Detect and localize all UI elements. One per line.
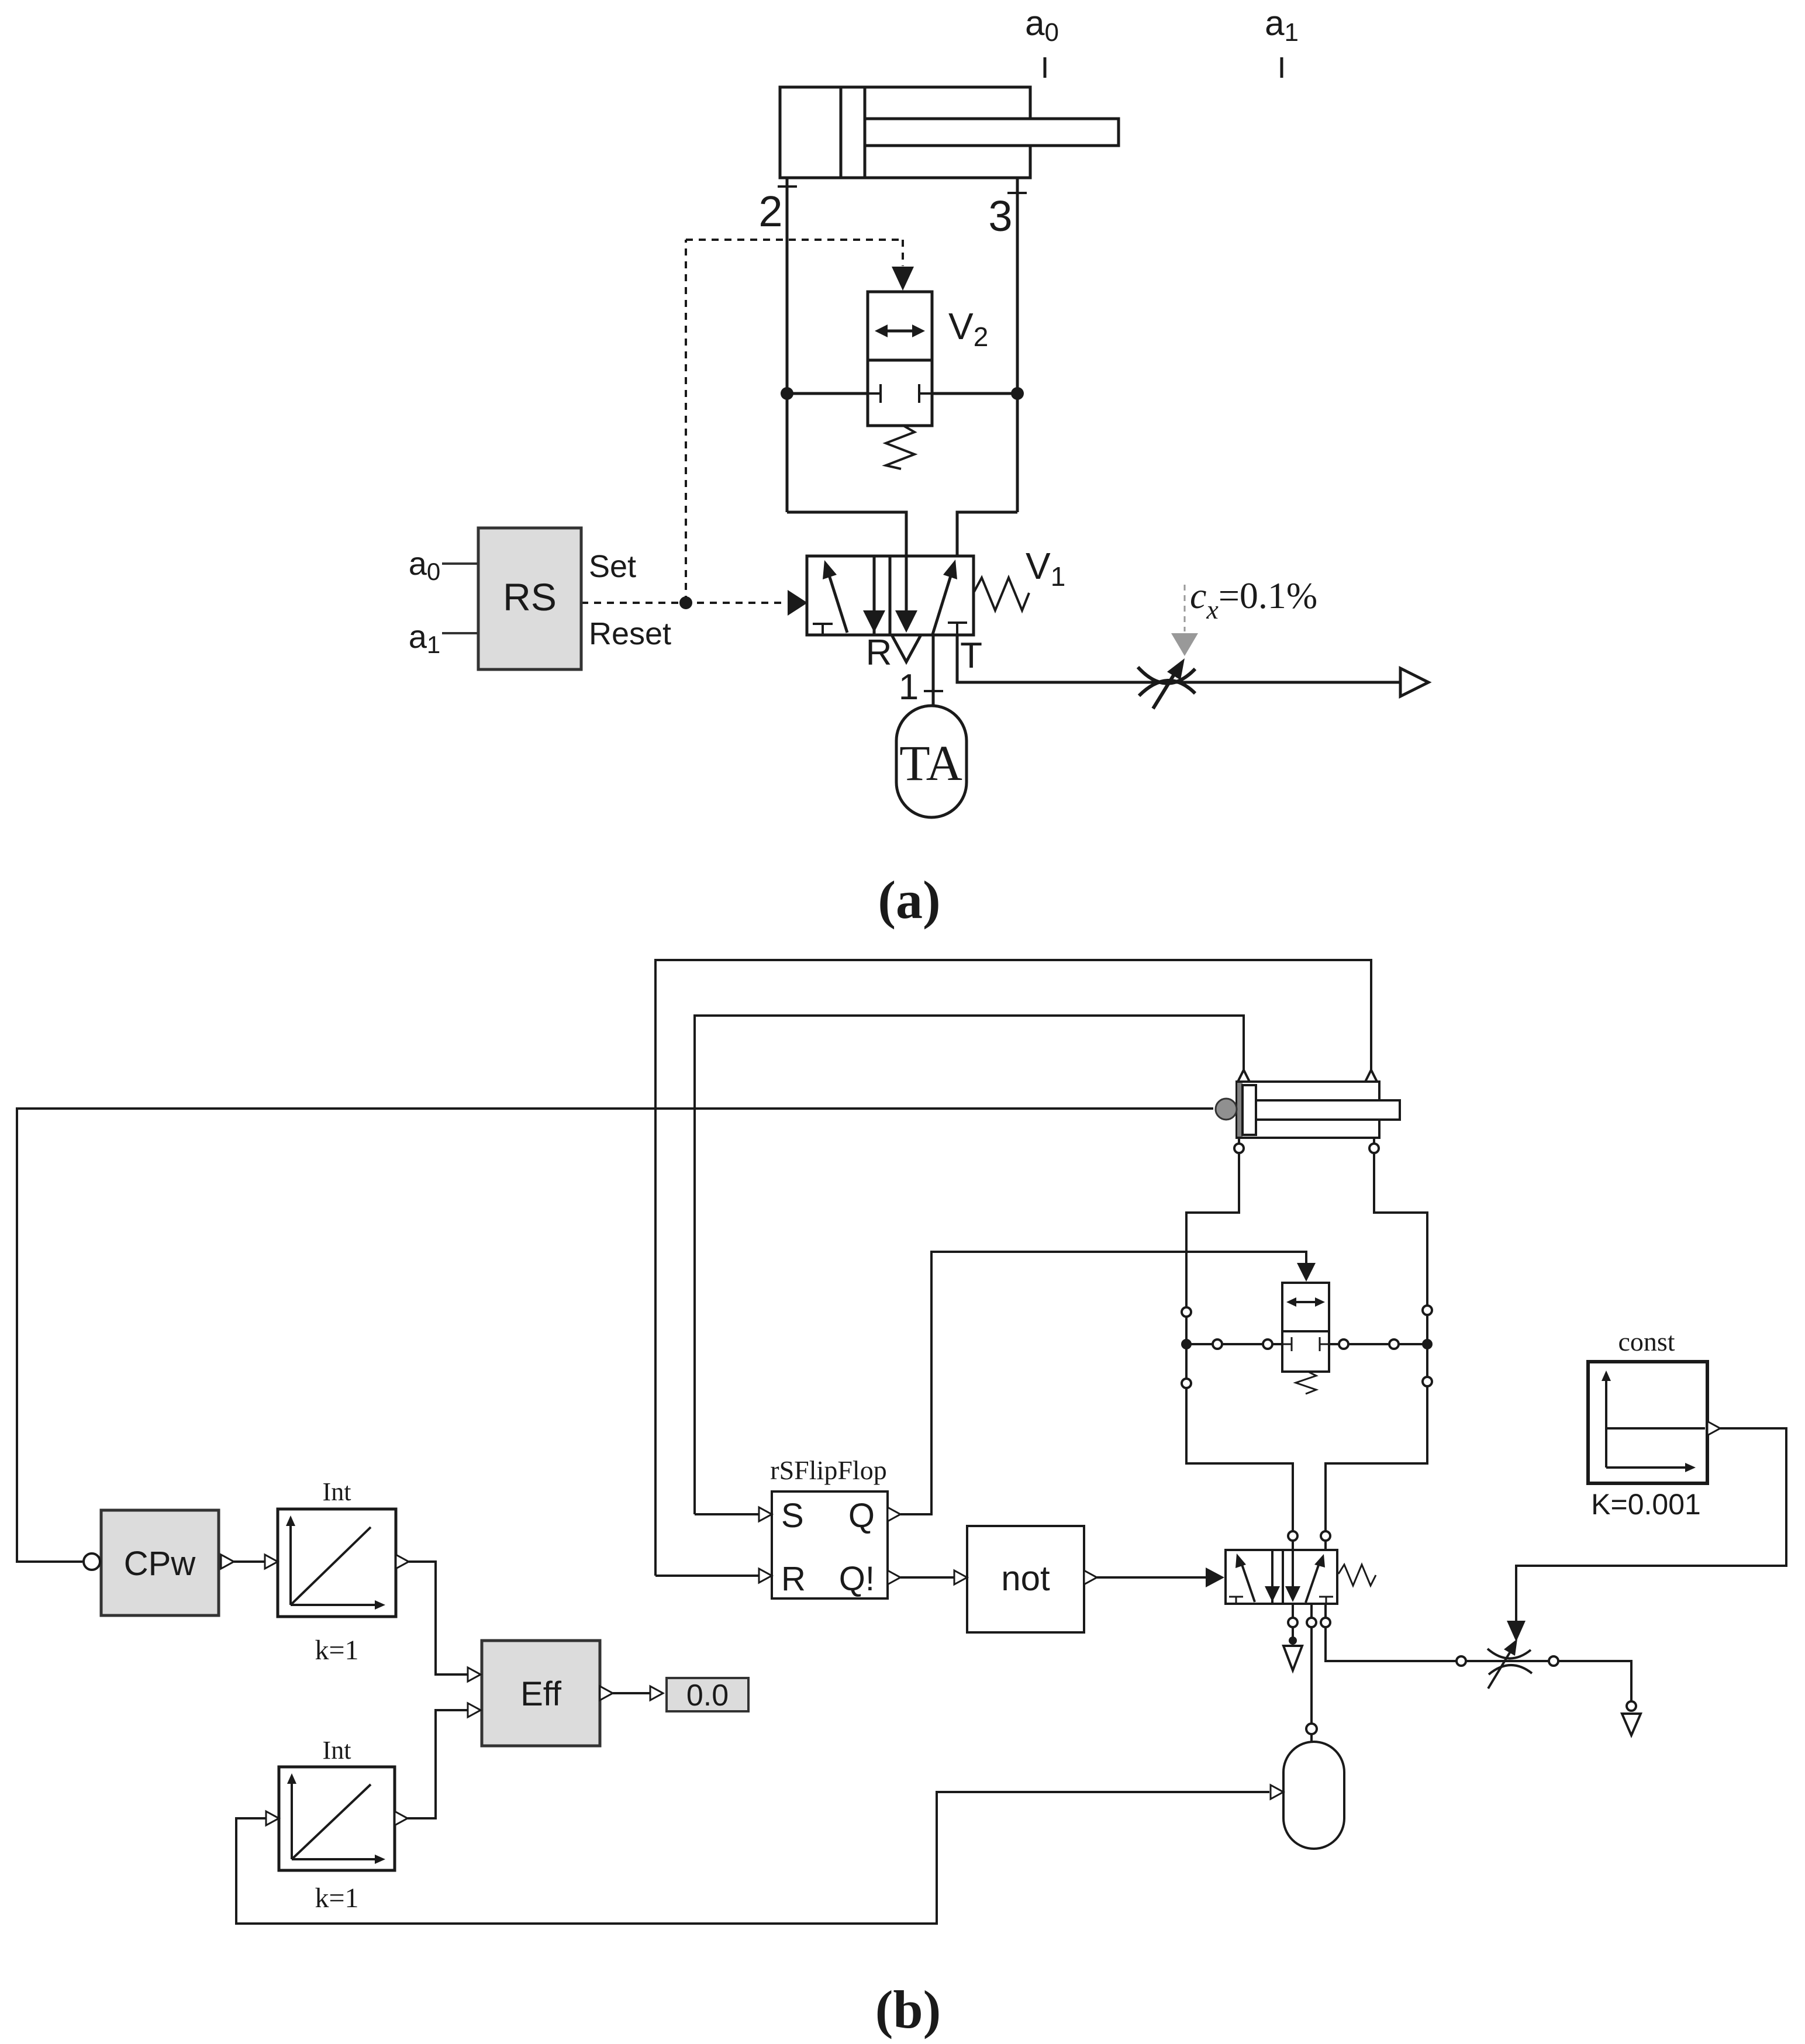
frame right wire xyxy=(1326,1153,1427,1531)
svg-text:Eff: Eff xyxy=(520,1675,562,1713)
throttle command gray triangle xyxy=(1171,633,1198,656)
V1 spring xyxy=(974,578,1029,610)
pilot dashed wire junction up xyxy=(685,240,687,603)
RS input a0 label xyxy=(409,545,441,585)
Int1 block xyxy=(278,1509,396,1617)
wire valve right port to throttle xyxy=(1326,1627,1457,1661)
svg-text:0.0: 0.0 xyxy=(686,1679,729,1712)
cylinder gray bar (b) xyxy=(1237,1083,1243,1137)
wire stub left port xyxy=(1238,1138,1240,1144)
wire Eff to display xyxy=(613,1692,650,1694)
valve top-right port node xyxy=(1321,1531,1330,1541)
exhaust under valve left port xyxy=(1292,1627,1294,1637)
not output triangle xyxy=(1084,1570,1097,1584)
valve bottom port R node xyxy=(1288,1618,1297,1627)
accumulator input triangle xyxy=(1271,1785,1283,1799)
const axes xyxy=(1605,1380,1607,1468)
svg-text:1: 1 xyxy=(899,667,919,707)
valve top-left port node xyxy=(1288,1531,1297,1541)
pilot valve spring xyxy=(1296,1372,1316,1394)
svg-text:Q!: Q! xyxy=(839,1560,875,1598)
cylinder (b) sensor triangle a1 xyxy=(1365,1070,1377,1082)
bridge node 3 xyxy=(1339,1339,1348,1349)
wire stub right port xyxy=(1373,1138,1375,1144)
V1 left cell arrow xyxy=(829,575,847,633)
svg-text:3: 3 xyxy=(988,192,1012,240)
valve V1 body xyxy=(807,556,974,635)
valve divider lines xyxy=(1271,1550,1273,1604)
pilot valve body (b) xyxy=(1282,1283,1329,1372)
wire port 3 vertical xyxy=(1016,178,1019,512)
rSFlipFlop block xyxy=(772,1491,888,1598)
node on right frame lower xyxy=(1423,1377,1432,1386)
rSFlipFlop label xyxy=(770,1455,886,1485)
CPw block xyxy=(101,1510,219,1615)
wire port 1 to accumulator xyxy=(932,635,935,707)
bridge wire through pilot valve xyxy=(1186,1343,1282,1345)
caption (a) xyxy=(878,870,940,930)
node on left frame lower xyxy=(1182,1379,1191,1388)
svg-text:K=0.001: K=0.001 xyxy=(1591,1488,1701,1521)
RS input a1 label xyxy=(409,618,441,658)
Int1 k label xyxy=(315,1635,358,1666)
pilot dashed wire down to V2 xyxy=(902,240,904,266)
Eff block xyxy=(482,1641,600,1746)
wire stub valve bottom 1 xyxy=(1310,1604,1313,1618)
valve bottom port T node xyxy=(1321,1618,1330,1627)
junction left frame/bridge xyxy=(1181,1339,1192,1349)
V1 right cell arrow xyxy=(933,576,951,634)
Int2 output triangle xyxy=(395,1811,408,1825)
accumulator (b) xyxy=(1283,1742,1344,1849)
node a0 tick xyxy=(1044,57,1047,78)
cylinder (b) sensor triangle a0 xyxy=(1238,1070,1250,1082)
display 0.0 xyxy=(667,1678,748,1711)
svg-text:S: S xyxy=(781,1497,804,1535)
svg-text:Reset: Reset xyxy=(589,616,671,651)
V1 divider lines xyxy=(873,556,876,635)
svg-text:(a): (a) xyxy=(878,870,940,930)
Eff output triangle xyxy=(600,1686,613,1700)
throttle cx arcs xyxy=(1138,667,1195,683)
bridge node 4 xyxy=(1389,1339,1399,1349)
valve down arrow 2 xyxy=(1292,1550,1294,1588)
wire Q! to not xyxy=(900,1576,954,1579)
pilot dashed wire RS to junction xyxy=(581,602,786,604)
node a0 label xyxy=(1025,4,1059,47)
V1 right cell blocked port xyxy=(948,622,967,624)
wire Q to pilot valve xyxy=(900,1252,1306,1514)
RS Reset label xyxy=(589,616,671,651)
valve down arrow 1 xyxy=(1271,1550,1273,1588)
pilot valve double arrow xyxy=(1291,1301,1320,1303)
rSFlipFlop S input triangle xyxy=(759,1507,772,1521)
V1 down arrow 2 xyxy=(905,556,908,612)
node on right frame upper xyxy=(1423,1306,1432,1315)
svg-text:k=1: k=1 xyxy=(315,1883,358,1914)
V1 R label xyxy=(866,633,892,673)
exhaust after throttle xyxy=(1627,1701,1636,1711)
const label xyxy=(1618,1327,1675,1356)
cylinder (b) left port node xyxy=(1234,1144,1244,1153)
wire across V2 bottom xyxy=(787,392,868,395)
Int1 axes xyxy=(289,1525,292,1605)
throttle (b) arrow xyxy=(1488,1652,1510,1689)
port 1 label xyxy=(899,667,919,707)
throttle cx arrow xyxy=(1153,671,1176,709)
cylinder (b) right port node xyxy=(1369,1144,1379,1153)
wire V1 T port out xyxy=(957,635,1399,682)
svg-text:CPw: CPw xyxy=(124,1545,196,1583)
wire a1 sensor to R (outer loop) xyxy=(655,960,1371,1576)
svg-text:Int: Int xyxy=(323,1736,351,1765)
wire port 2 vertical xyxy=(786,178,789,512)
port 3 tick xyxy=(1007,192,1027,194)
svg-text:not: not xyxy=(1001,1559,1050,1598)
Int1 label xyxy=(323,1477,351,1506)
V1 exhaust R triangle xyxy=(892,635,921,662)
valve left cell blocked port xyxy=(1229,1596,1243,1598)
svg-text:const: const xyxy=(1618,1327,1675,1356)
const block xyxy=(1588,1362,1707,1483)
junction node left xyxy=(781,387,793,400)
wire position sensor to CPw xyxy=(17,1109,1213,1562)
cylinder rod (a) xyxy=(865,119,1119,146)
pilot valve blocked symbol xyxy=(1282,1344,1292,1345)
V1 down arrow 1 xyxy=(873,556,876,612)
wire stub valve top-left xyxy=(1292,1541,1294,1550)
V2 double arrow xyxy=(881,330,919,333)
svg-text:R: R xyxy=(781,1560,806,1598)
cylinder piston (b) xyxy=(1243,1085,1256,1135)
position sensor ball xyxy=(1216,1099,1237,1120)
wire CPw to Int1 xyxy=(234,1560,265,1563)
wire Int1 to Eff xyxy=(409,1562,468,1674)
port 2 tick xyxy=(778,185,797,188)
CPw output triangle xyxy=(221,1555,234,1569)
svg-text:rSFlipFlop: rSFlipFlop xyxy=(770,1455,886,1485)
valve right cell arrow xyxy=(1306,1565,1319,1603)
accumulator TA xyxy=(896,706,967,817)
Int2 label xyxy=(323,1736,351,1765)
V1 T label xyxy=(960,636,982,676)
node a1 label xyxy=(1265,4,1299,47)
wire L-bend to V1 left top port xyxy=(787,512,906,556)
not block xyxy=(967,1526,1084,1632)
const output triangle xyxy=(1707,1421,1720,1435)
pilot arrow into V1 xyxy=(788,590,807,616)
port 1 tick xyxy=(924,690,943,692)
Eff input triangles xyxy=(468,1667,481,1682)
valve left cell arrow xyxy=(1242,1565,1255,1602)
RS input a0 wire xyxy=(442,562,478,565)
wire L-bend to V1 right top port xyxy=(957,512,1017,556)
wire accumulator to Int2 xyxy=(236,1792,1269,1924)
svg-text:k=1: k=1 xyxy=(315,1635,358,1666)
not input triangle xyxy=(954,1570,967,1584)
cylinder body (a) xyxy=(780,87,1030,178)
V2 label xyxy=(948,305,988,352)
rSFlipFlop Q output triangle xyxy=(888,1507,900,1521)
CPw input circle xyxy=(84,1553,100,1570)
V2 spring xyxy=(886,426,914,469)
svg-text:2: 2 xyxy=(758,187,782,236)
RS flip-flop block xyxy=(478,528,581,669)
Int2 block xyxy=(279,1767,395,1870)
cylinder rod (b) xyxy=(1256,1100,1400,1120)
wire a0 sensor to S (inner loop) xyxy=(695,1016,1244,1514)
port 2 label xyxy=(758,187,782,236)
rSFlipFlop Q! output triangle xyxy=(888,1570,900,1584)
caption (b) xyxy=(875,1980,941,2039)
V1 label xyxy=(1026,545,1065,592)
const value label xyxy=(1591,1488,1701,1521)
rSFlipFlop R input triangle xyxy=(759,1569,772,1583)
svg-text:TA: TA xyxy=(899,735,962,791)
junction right frame/bridge xyxy=(1422,1339,1433,1349)
V1 left cell blocked port xyxy=(813,623,833,625)
Int1 input triangle xyxy=(265,1555,278,1569)
frame left wire xyxy=(1186,1153,1293,1531)
bridge node 1 xyxy=(1213,1339,1222,1349)
node on left frame upper xyxy=(1182,1307,1191,1317)
V2 blocked symbol xyxy=(868,392,881,395)
throttle (b) arcs xyxy=(1488,1649,1531,1659)
valve spring (b) xyxy=(1338,1565,1376,1586)
Int2 k label xyxy=(315,1883,358,1914)
wire const to throttle xyxy=(1516,1428,1786,1621)
wire stub valve top-right xyxy=(1324,1541,1327,1550)
svg-text:RS: RS xyxy=(503,575,557,619)
svg-text:T: T xyxy=(960,636,982,676)
wire stub valve bottom R xyxy=(1292,1604,1294,1618)
RS Set label xyxy=(589,549,636,584)
valve V2 body xyxy=(868,292,932,426)
cylinder body (b) xyxy=(1237,1082,1379,1138)
Int2 axes xyxy=(291,1783,293,1859)
Int1 output triangle xyxy=(396,1555,409,1569)
svg-text:(b): (b) xyxy=(875,1980,941,2039)
port 3 label xyxy=(988,192,1012,240)
svg-text:Q: Q xyxy=(848,1497,875,1535)
junction node right xyxy=(1011,387,1024,400)
pilot dashed wire across top xyxy=(686,239,903,241)
svg-text:Int: Int xyxy=(323,1477,351,1506)
cylinder piston (a) xyxy=(841,87,865,178)
flow direction arrow at line end xyxy=(1400,668,1428,696)
throttle command dashed gray xyxy=(1184,585,1186,631)
wire stub valve bottom T xyxy=(1324,1604,1327,1618)
valve 3/2 (b) body xyxy=(1226,1550,1337,1604)
Int2 input triangle xyxy=(266,1811,279,1825)
junction dot on pilot wire xyxy=(679,596,692,609)
valve bottom port 1 node xyxy=(1307,1618,1316,1627)
throttle value label cx=0.1% xyxy=(1190,575,1317,624)
node a1 tick xyxy=(1281,57,1283,78)
svg-text:R: R xyxy=(866,633,892,673)
pilot arrow into V2 xyxy=(892,267,914,291)
wire valve to accumulator (b) xyxy=(1310,1627,1313,1724)
valve right cell blocked port xyxy=(1319,1596,1333,1598)
svg-text:Set: Set xyxy=(589,549,636,584)
wire Int2 to Eff xyxy=(408,1710,468,1818)
RS input a1 wire xyxy=(442,632,478,634)
bridge node 2 xyxy=(1263,1339,1272,1349)
wire not to valve xyxy=(1097,1576,1206,1579)
